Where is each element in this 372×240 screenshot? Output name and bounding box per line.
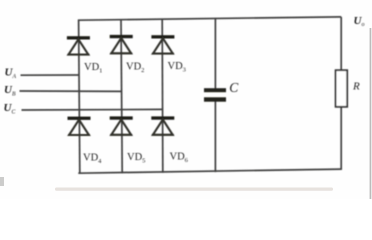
svg-text:VD5: VD5 [127,152,145,165]
svg-text:Uo: Uo [354,15,365,28]
svg-text:VD6: VD6 [170,152,189,165]
svg-text:UC: UC [4,102,16,115]
svg-text:C: C [229,80,239,95]
svg-text:UB: UB [4,84,16,97]
svg-text:R: R [352,81,360,93]
svg-text:VD3: VD3 [168,61,186,74]
svg-text:VD2: VD2 [126,62,144,75]
svg-text:UA: UA [5,67,17,80]
svg-text:VD1: VD1 [84,62,102,75]
svg-text:VD4: VD4 [83,152,102,165]
